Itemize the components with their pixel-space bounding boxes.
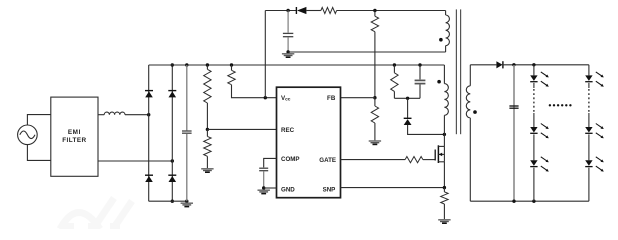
wire LED string1 dotted: [533, 89, 535, 113]
wire LED string2 upper: [588, 65, 590, 76]
wire LED string2 dotted: [588, 89, 590, 113]
node SNP sense: [443, 186, 446, 189]
diode D3 bridge bottom-left: [145, 174, 153, 176]
wire LED string1 lower mid: [533, 134, 535, 160]
node bridge AC left: [147, 113, 150, 116]
node output cap bottom: [512, 200, 515, 203]
wire Vcc cap upper: [287, 11, 289, 33]
resistor R9 sense: [443, 188, 445, 192]
wire LED string2 lower mid: [588, 134, 590, 160]
wire aux top line right: [337, 10, 446, 12]
LED D8: [530, 75, 537, 81]
node bridge top-right: [171, 63, 174, 66]
resistor R6 FB lower: [374, 98, 376, 106]
resistor R8 gate: [405, 157, 423, 163]
aux phase dot: [439, 38, 443, 42]
node clamp resistor top: [393, 63, 396, 66]
wire aux top line left: [265, 10, 296, 12]
EMI filter block: [51, 97, 98, 176]
wire REC: [207, 128, 276, 130]
LED D10 arrows: [541, 157, 548, 162]
primary phase dot: [437, 80, 441, 84]
secondary phase dot: [473, 110, 477, 114]
svg-text:GATE: GATE: [319, 157, 336, 164]
capacitor C3 clamp: [419, 65, 421, 79]
wire aux return: [288, 51, 446, 53]
node clamp cap top: [418, 63, 421, 66]
wire gate resistor to MOSFET: [423, 159, 435, 161]
wire output cap: [513, 65, 515, 201]
wire FB divider mid: [374, 32, 376, 98]
wire LED string1 mid: [533, 113, 535, 127]
resistor R5 FB upper: [374, 11, 376, 17]
wire secondary top rail: [470, 64, 496, 66]
wire primary to drain node: [443, 115, 445, 134]
wire divider to ground: [206, 156, 208, 168]
diode D1 bridge top-left: [145, 90, 153, 92]
node Vcc cap top: [286, 9, 289, 12]
wire EMI out top: [98, 114, 104, 116]
wire source down: [443, 162, 445, 188]
wire LED string2 mid: [588, 113, 590, 127]
ground Vcc cap: [282, 53, 294, 55]
wire bulk cap lower: [186, 134, 188, 201]
AC source V1: [18, 125, 38, 145]
node LED string1 bottom: [532, 200, 535, 203]
diode D7 output: [496, 61, 502, 68]
svg-text:COMP: COMP: [281, 156, 300, 163]
wire inductor to bridge: [125, 114, 149, 116]
capacitor C2 Vcc: [283, 32, 293, 34]
node bulk cap bottom: [185, 200, 188, 203]
resistor R4 aux series: [321, 7, 337, 13]
wire divider mid: [206, 103, 208, 129]
wire COMP cap to ground: [263, 171, 265, 188]
svg-text:REC: REC: [281, 127, 295, 134]
wire Vcc cap lower: [287, 37, 289, 52]
wire input bottom rail: [149, 200, 187, 202]
wire output bottom rail: [470, 200, 589, 202]
node divider top: [206, 63, 209, 66]
ground IC: [258, 189, 270, 191]
wire FB resistor to ground: [374, 123, 376, 140]
resistor R2 divider lower: [206, 129, 208, 136]
transformer core: [455, 9, 457, 134]
diode D5 aux rectifier: [295, 7, 297, 14]
wire LED string2 bottom: [588, 168, 590, 202]
node bulk cap top: [185, 63, 188, 66]
node drain: [443, 133, 446, 136]
wire LED string2 solid: [588, 83, 590, 88]
svg-text:FILTER: FILTER: [62, 137, 86, 144]
wire bulk cap upper: [186, 65, 188, 130]
node REC divider: [206, 128, 209, 131]
diode D6 clamp: [404, 117, 412, 119]
svg-text:SNP: SNP: [323, 186, 336, 193]
wire DC bus to primary: [443, 65, 445, 84]
transistor Q1 MOSFET: [434, 150, 436, 161]
wire output rail: [503, 64, 589, 66]
LED D11 arrows: [596, 72, 603, 77]
node bridge AC right: [171, 159, 174, 162]
diode D4 bridge bottom-right: [168, 174, 176, 176]
wire bridge right branch: [171, 65, 173, 201]
ground sense: [438, 219, 450, 221]
wire Vcc vertical: [264, 11, 266, 98]
wire AC bottom to EMI filter: [27, 145, 50, 161]
node bridge bottom-right: [171, 200, 174, 203]
node FB: [373, 96, 376, 99]
node output cap top: [512, 63, 515, 66]
node clamp diode top: [406, 97, 409, 100]
wire COMP: [264, 158, 277, 167]
capacitor C5 output: [509, 105, 518, 107]
LED D10: [530, 160, 537, 166]
node startup resistor top: [230, 63, 233, 66]
svg-text:FB: FB: [327, 95, 336, 102]
resistor R1 divider upper: [206, 65, 208, 69]
wire clamp bottom link: [394, 97, 420, 99]
node aux return: [286, 50, 289, 53]
wire startup to Vcc pin: [232, 85, 277, 98]
wire GATE: [341, 159, 406, 161]
wire AC top to EMI filter: [27, 115, 50, 125]
svg-text:EMI: EMI: [68, 129, 81, 136]
diode D2 bridge top-right: [168, 90, 176, 92]
node LED string1 top: [532, 63, 535, 66]
LED D12 arrows: [596, 124, 603, 129]
ground input rail: [181, 202, 193, 204]
LED D11: [585, 75, 592, 81]
ground divider: [201, 168, 213, 170]
node FB divider top: [373, 9, 376, 12]
wire GND pin: [264, 187, 277, 189]
resistor R3 startup: [231, 65, 233, 70]
wire LED string1 bottom: [533, 168, 535, 202]
wire FB: [341, 97, 375, 99]
LED D8 arrows: [541, 72, 548, 77]
wire bridge left branch: [148, 65, 150, 201]
capacitor C1 bulk: [182, 130, 192, 132]
node more strings dots: [549, 104, 551, 106]
transformer T1 aux winding: [445, 11, 447, 16]
op-amp U1 controller IC: [277, 87, 341, 198]
LED D13 arrows: [596, 157, 603, 162]
wire sense to ground: [443, 204, 445, 219]
wire LED string1 solid: [533, 83, 535, 88]
svg-text:GND: GND: [281, 186, 295, 193]
LED D9: [530, 127, 537, 133]
LED D13: [585, 160, 592, 166]
wire aux diode to resistor: [306, 10, 321, 12]
LED D9 arrows: [541, 124, 548, 129]
LED D12: [585, 127, 592, 133]
transformer T1 secondary winding: [469, 65, 471, 86]
wire clamp diode to drain: [408, 125, 445, 134]
ground FB divider: [369, 140, 381, 142]
wire EMI out bottom: [98, 160, 172, 162]
wire SNP: [341, 187, 445, 189]
wire LED string1 upper: [533, 65, 535, 76]
capacitor C4 COMP: [259, 167, 268, 169]
wire clamp to diode: [407, 98, 409, 118]
transformer T1 primary winding: [444, 84, 448, 116]
resistor R7 clamp: [393, 65, 395, 73]
node Vcc: [264, 96, 267, 99]
inductor L1: [104, 112, 125, 115]
node GND: [262, 186, 265, 189]
wire DC bus: [149, 64, 445, 66]
